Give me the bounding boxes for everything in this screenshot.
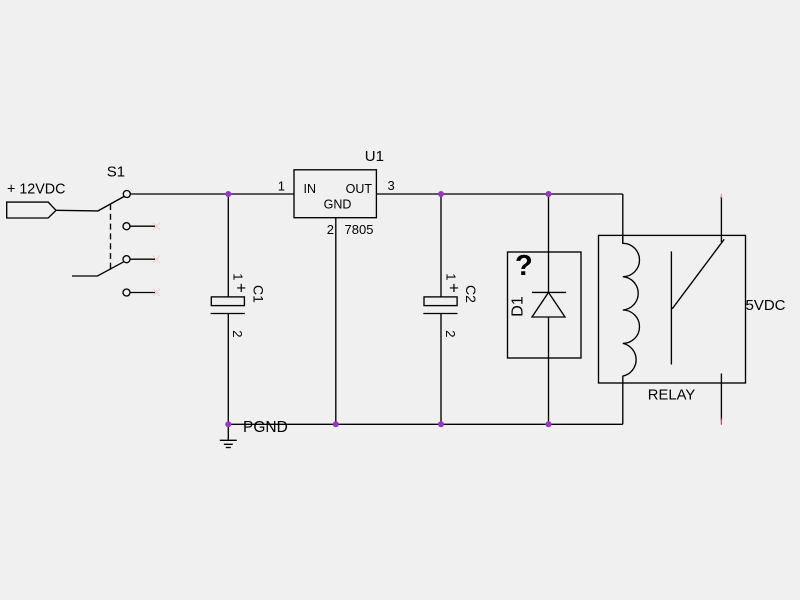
capacitor C2 top plate (424, 297, 457, 306)
svg-text:5VDC: 5VDC (746, 297, 786, 314)
svg-text:C2: C2 (463, 285, 479, 303)
svg-text:+: + (236, 279, 246, 298)
junction dot rail U1 gnd (333, 421, 339, 427)
wire down into relay coil (622, 194, 624, 243)
junction dot top C1 (225, 191, 551, 427)
junction dot top D1 (546, 191, 552, 197)
relay bottom terminal (720, 374, 722, 421)
switch S1 contact circle 4 (123, 289, 130, 296)
svg-text:?: ? (515, 250, 533, 282)
svg-text:IN: IN (304, 182, 317, 196)
svg-text:1: 1 (278, 179, 285, 194)
op-amp U1 box (294, 170, 376, 218)
svg-text:C1: C1 (250, 285, 266, 303)
relay contact pole line (670, 251, 672, 364)
capacitor C2 bottom plate (423, 313, 457, 315)
relay top terminal (720, 196, 722, 242)
capacitor C2 top lead (440, 194, 442, 297)
svg-text:PGND: PGND (243, 419, 288, 436)
relay contact arm (672, 239, 724, 308)
no-connect mark stub3 (153, 256, 160, 263)
svg-text:2: 2 (443, 330, 458, 337)
svg-text:+: + (449, 279, 459, 298)
relay coil arcs (623, 235, 640, 424)
switch S1 stub circle4 (130, 292, 155, 294)
wire S1 to U1 pin1 (130, 193, 294, 195)
capacitor C1 top plate (211, 297, 244, 306)
diode D1 branch wire (548, 194, 550, 424)
switch S1 pole circle 1 (123, 191, 130, 198)
junction dot rail D1 (546, 421, 552, 427)
svg-text:+ 12VDC: + 12VDC (7, 182, 65, 198)
svg-text:RELAY: RELAY (648, 387, 696, 403)
svg-text:D1: D1 (510, 296, 527, 317)
svg-text:3: 3 (388, 178, 395, 193)
no-connect tip relay top (720, 194, 722, 198)
switch S1 stub circle3 (130, 258, 155, 260)
wire connector to switch pole (56, 197, 124, 211)
svg-text:OUT: OUT (346, 182, 373, 196)
diode D1 triangle (532, 292, 565, 317)
svg-text:S1: S1 (107, 164, 125, 181)
svg-text:2: 2 (327, 222, 334, 237)
power connector +12VDC (7, 202, 56, 218)
junction dot rail ground (225, 421, 231, 427)
switch S1 stub circle2 (130, 225, 155, 227)
relay box (599, 235, 746, 383)
junction dot rail C2 (438, 421, 444, 427)
svg-text:2: 2 (230, 330, 245, 337)
svg-text:GND: GND (324, 198, 352, 212)
capacitor C1 bottom lead (227, 314, 229, 425)
switch S1 contact circle 3 (123, 256, 130, 263)
capacitor C2 bottom lead (440, 314, 442, 425)
bottom ground rail PGND (228, 423, 623, 425)
switch S1 contact circle 2 (123, 223, 130, 230)
capacitor C1 bottom plate (211, 313, 245, 315)
no-connect mark stub2 (153, 194, 721, 425)
no-connect mark stub4 (153, 289, 160, 296)
svg-text:7805: 7805 (345, 222, 374, 237)
diode D1 cathode bar (532, 291, 566, 293)
svg-text:U1: U1 (365, 148, 384, 165)
diode D1 box (508, 252, 582, 358)
switch S1 lower pole arm (72, 262, 124, 276)
U1 pin2 GND lead (335, 218, 337, 425)
ground symbol (227, 424, 229, 440)
switch S1 gang dashed link (110, 204, 112, 270)
junction dot top C2 (438, 191, 444, 197)
wire U1 pin3 to relay corner (376, 193, 622, 195)
capacitor C1 top lead (227, 194, 229, 297)
no-connect tip relay bottom (720, 419, 722, 425)
